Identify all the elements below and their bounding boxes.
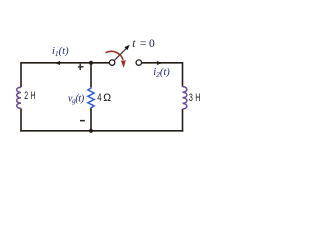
switch arm arrowhead [125,45,130,50]
inductor 2 H coil [17,87,21,108]
wire bottom [20,130,183,132]
current arrow i2 [157,61,163,65]
svg-text:4Ω: 4Ω [97,92,111,104]
wire right vertical upper [182,62,184,87]
svg-text:i1(t): i1(t) [52,46,69,58]
wire right vertical lower [182,109,184,132]
svg-text:2H: 2H [24,90,35,102]
resistor 4 ohm zigzag [88,87,94,108]
svg-text:3H: 3H [189,92,201,104]
minus sign polarity [80,120,85,122]
switch arm [114,48,126,60]
inductor 3 H coil [183,87,187,109]
wire middle branch upper [90,63,92,88]
svg-text:i2(t): i2(t) [153,67,170,79]
node junction dot top [89,61,93,65]
switch motion red arc [106,51,124,59]
plus sign polarity [78,64,84,70]
switch terminal circle right [136,60,141,65]
wire top-left segment [21,62,110,64]
svg-text:vg(t): vg(t) [68,94,85,106]
wire left vertical lower [20,108,22,131]
wire top-right segment [142,62,183,64]
current arrow i1 [54,61,60,65]
switch terminal circle left [109,60,114,65]
wire middle branch lower [90,108,92,131]
switch motion red arrowhead [121,60,126,68]
node junction dot bottom [89,129,93,133]
wire left vertical upper [20,62,22,87]
